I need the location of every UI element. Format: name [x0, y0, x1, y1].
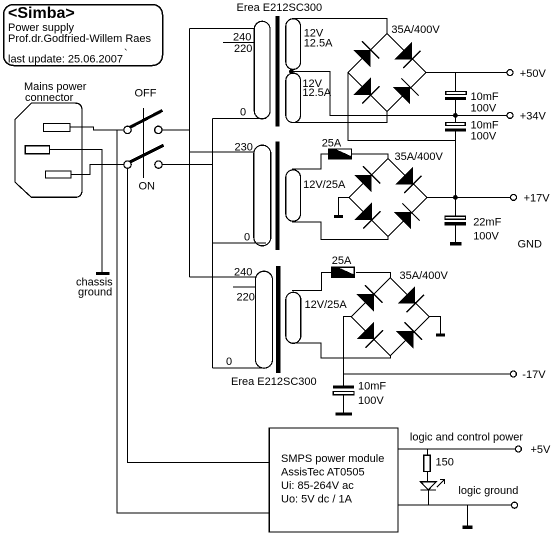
terminal +34V	[507, 112, 513, 118]
svg-text:logic and control power: logic and control power	[410, 432, 523, 444]
svg-text:Uo: 5V dc / 1A: Uo: 5V dc / 1A	[281, 494, 353, 506]
svg-text:22mF: 22mF	[473, 217, 501, 229]
switch S1b ON pole contact	[124, 161, 131, 168]
terminal -17V	[510, 371, 516, 377]
svg-text:Erea E212SC300: Erea E212SC300	[231, 376, 317, 388]
transformer T1 core	[275, 16, 279, 127]
ground bar at BR2	[334, 215, 343, 218]
wire T2 secondary bottom to bridge BR2	[292, 222, 388, 240]
wire live bus to T1 240 tap	[190, 28, 255, 30]
svg-text:0: 0	[244, 232, 250, 244]
chassis ground bar	[96, 272, 110, 275]
neutral bus vertical	[212, 119, 214, 368]
svg-text:35A/400V: 35A/400V	[395, 151, 444, 163]
live bus vertical	[189, 29, 191, 277]
node +17V junction	[453, 195, 458, 200]
capacitor C2 10mF 100V stub	[454, 115, 456, 122]
bridge rectifier BR3	[351, 278, 429, 356]
connector live pin	[44, 123, 71, 131]
ground bar below C4	[336, 413, 353, 416]
svg-text:10mF: 10mF	[471, 91, 499, 103]
svg-text:12.5A: 12.5A	[304, 37, 333, 49]
wire T2 0 tap	[213, 242, 267, 244]
capacitor C4 lower stub	[343, 395, 345, 413]
wire ON switch pole down to SMPS input	[128, 168, 270, 462]
svg-text:35A/400V: 35A/400V	[400, 270, 449, 282]
wire T1 0 tap	[213, 118, 267, 120]
svg-text:+5V: +5V	[531, 444, 552, 456]
wire T1 secondary bottom to bridge BR1	[291, 112, 387, 123]
SMPS power module box	[269, 428, 398, 532]
svg-text:SMPS power module: SMPS power module	[281, 453, 384, 465]
capacitor C4 minus plate	[333, 386, 354, 389]
wire C2 to +17V rail	[454, 132, 456, 198]
transformer T1 primary winding	[254, 21, 270, 119]
svg-text:-17V: -17V	[522, 369, 546, 381]
ground bar at BR3	[436, 334, 445, 337]
bridge rectifier BR2	[349, 159, 427, 237]
wire T3 0 tap	[213, 367, 268, 369]
ground bar logic	[463, 526, 473, 530]
wire fuse F2 to bridge BR3	[356, 272, 390, 277]
wire BR1 plus to +50V	[426, 72, 507, 74]
svg-text:ground: ground	[78, 287, 112, 299]
wire logic ground stub	[466, 505, 468, 525]
svg-text:100V: 100V	[471, 102, 497, 114]
svg-text:100V: 100V	[473, 231, 499, 243]
svg-text:+17V: +17V	[524, 193, 551, 205]
svg-text:12V/25A: 12V/25A	[303, 179, 346, 191]
transformer T3 primary winding	[256, 271, 273, 368]
wire BR3 minus down to capacitor C4	[344, 317, 352, 386]
svg-text:Ui: 85-264V ac: Ui: 85-264V ac	[281, 480, 354, 492]
wire ON contact to neutral bus	[162, 164, 212, 166]
wire BR3 plus to ground	[429, 317, 440, 334]
wire live bus to T3 240 tap	[190, 276, 256, 278]
svg-text:logic ground: logic ground	[458, 485, 518, 497]
transformer T2 core	[275, 141, 279, 250]
capacitor C3 lower stub	[454, 226, 456, 243]
svg-text:240: 240	[234, 267, 252, 279]
wire T3 secondary top to fuse F2	[292, 272, 332, 290]
transformer T2 primary winding	[254, 145, 271, 246]
svg-text:Erea E212SC300: Erea E212SC300	[237, 2, 323, 14]
svg-text:0: 0	[226, 356, 232, 368]
svg-text:220: 220	[237, 292, 255, 304]
svg-text:OFF: OFF	[135, 88, 157, 100]
wire resistor to LED	[426, 472, 428, 482]
svg-text:12V/25A: 12V/25A	[305, 299, 348, 311]
mains power connector body	[15, 103, 82, 197]
wire live pin to OFF switch pole	[70, 127, 124, 130]
LED D1 cathode bar	[421, 489, 436, 491]
connector neutral pin	[46, 171, 72, 178]
wire OFF contact to live bus	[162, 129, 190, 131]
svg-text:230: 230	[235, 142, 253, 154]
switch S1b ON output contact	[155, 161, 162, 168]
svg-text:100V: 100V	[358, 395, 384, 407]
svg-text:10mF: 10mF	[358, 381, 386, 393]
svg-text:12.5A: 12.5A	[302, 87, 331, 99]
svg-text:25A: 25A	[332, 255, 352, 267]
switch S1a OFF output contact	[155, 126, 162, 133]
wire BR2 minus to ground	[339, 198, 349, 216]
transformer T3 core	[276, 266, 280, 373]
fuse F1 25A	[329, 149, 352, 159]
wire centre tap to +34V rail	[291, 71, 507, 115]
capacitor C3 22mF 100V stub	[454, 197, 456, 216]
capacitor C4 plus plate	[333, 391, 354, 394]
connector earth pin	[25, 146, 49, 154]
capacitor C3 minus plate	[444, 222, 466, 226]
wire T1 secondary top to bridge BR1	[292, 19, 387, 34]
terminal +50V	[507, 70, 513, 76]
transformer T2 secondary winding	[286, 170, 301, 221]
capacitor C3 plus plate	[445, 216, 466, 219]
ground bar below C3	[450, 242, 462, 246]
transformer T3 220 tap stub	[233, 286, 256, 288]
title block frame	[4, 5, 163, 66]
switch gang link line	[143, 108, 145, 178]
svg-text:connector: connector	[25, 92, 74, 104]
wire live bus to T2 230 tap	[190, 151, 254, 153]
wire neutral pin to ON switch pole	[71, 165, 124, 175]
wire LED to logic ground rail	[427, 490, 429, 505]
svg-text:AssisTec AT0505: AssisTec AT0505	[281, 467, 365, 479]
svg-text:ON: ON	[139, 181, 156, 193]
LED D1 emission arrow	[437, 480, 445, 488]
svg-text:+34V: +34V	[520, 111, 547, 123]
LED D1 triangle	[421, 482, 436, 490]
bridge rectifier BR1	[348, 34, 426, 112]
terminal +5V	[515, 446, 521, 452]
svg-text:100V: 100V	[471, 131, 497, 143]
svg-text:25A: 25A	[322, 137, 342, 149]
svg-text:150: 150	[436, 457, 454, 469]
capacitor C1 minus plate	[445, 97, 466, 100]
wire fuse F1 to bridge BR2	[352, 154, 389, 159]
capacitor C2 minus plate	[445, 128, 466, 131]
svg-text:35A/400V: 35A/400V	[391, 24, 440, 36]
svg-text:+50V: +50V	[520, 68, 547, 80]
wire BR1 minus down to +17V rail	[348, 73, 455, 141]
resistor R1 150 body	[424, 455, 431, 471]
resistor R1 150 stub	[426, 449, 428, 455]
transformer T1 secondary winding 1	[286, 19, 301, 70]
node secondary centre tap junction	[289, 69, 294, 74]
capacitor C1 10mF 100V stub	[454, 73, 456, 92]
switch S1a lever	[130, 110, 163, 127]
terminal +17V	[511, 194, 517, 200]
wire earth pin to chassis ground	[50, 150, 103, 272]
capacitor C2 plus plate	[446, 123, 465, 126]
svg-text:10mF: 10mF	[471, 119, 499, 131]
svg-text:GND: GND	[518, 239, 543, 251]
svg-text:Prof.dr.Godfried-Willem Raes: Prof.dr.Godfried-Willem Raes	[8, 33, 152, 45]
svg-text:220: 220	[234, 43, 252, 55]
terminal logic ground	[512, 502, 518, 508]
capacitor C1 plus plate	[446, 92, 467, 95]
transformer T1 220 tap stub	[223, 41, 254, 43]
wire SMPS +5V output	[398, 448, 515, 450]
switch S1b lever	[130, 145, 164, 162]
svg-text:last update: 25.06.2007: last update: 25.06.2007	[8, 54, 123, 66]
svg-text:0: 0	[240, 107, 246, 119]
wire live branch down to SMPS input	[117, 130, 269, 513]
node +34V junction	[453, 113, 458, 118]
wire -17V rail	[344, 373, 511, 375]
wire T3 secondary bottom to bridge BR3	[292, 343, 390, 358]
wire BR2 plus to +17V	[427, 196, 510, 198]
wire T2 secondary top to fuse F1	[292, 154, 329, 169]
transformer T1 secondary winding 2	[286, 73, 301, 122]
transformer T3 secondary winding	[286, 292, 301, 343]
svg-text:`: `	[124, 48, 128, 60]
wire logic ground rail	[398, 504, 511, 506]
fuse F2 25A	[332, 267, 355, 277]
svg-text:<Simba>: <Simba>	[8, 5, 75, 22]
capacitor C1 lower stub	[454, 100, 456, 115]
switch S1a OFF pole contact	[124, 126, 131, 133]
svg-text:240: 240	[233, 32, 251, 44]
